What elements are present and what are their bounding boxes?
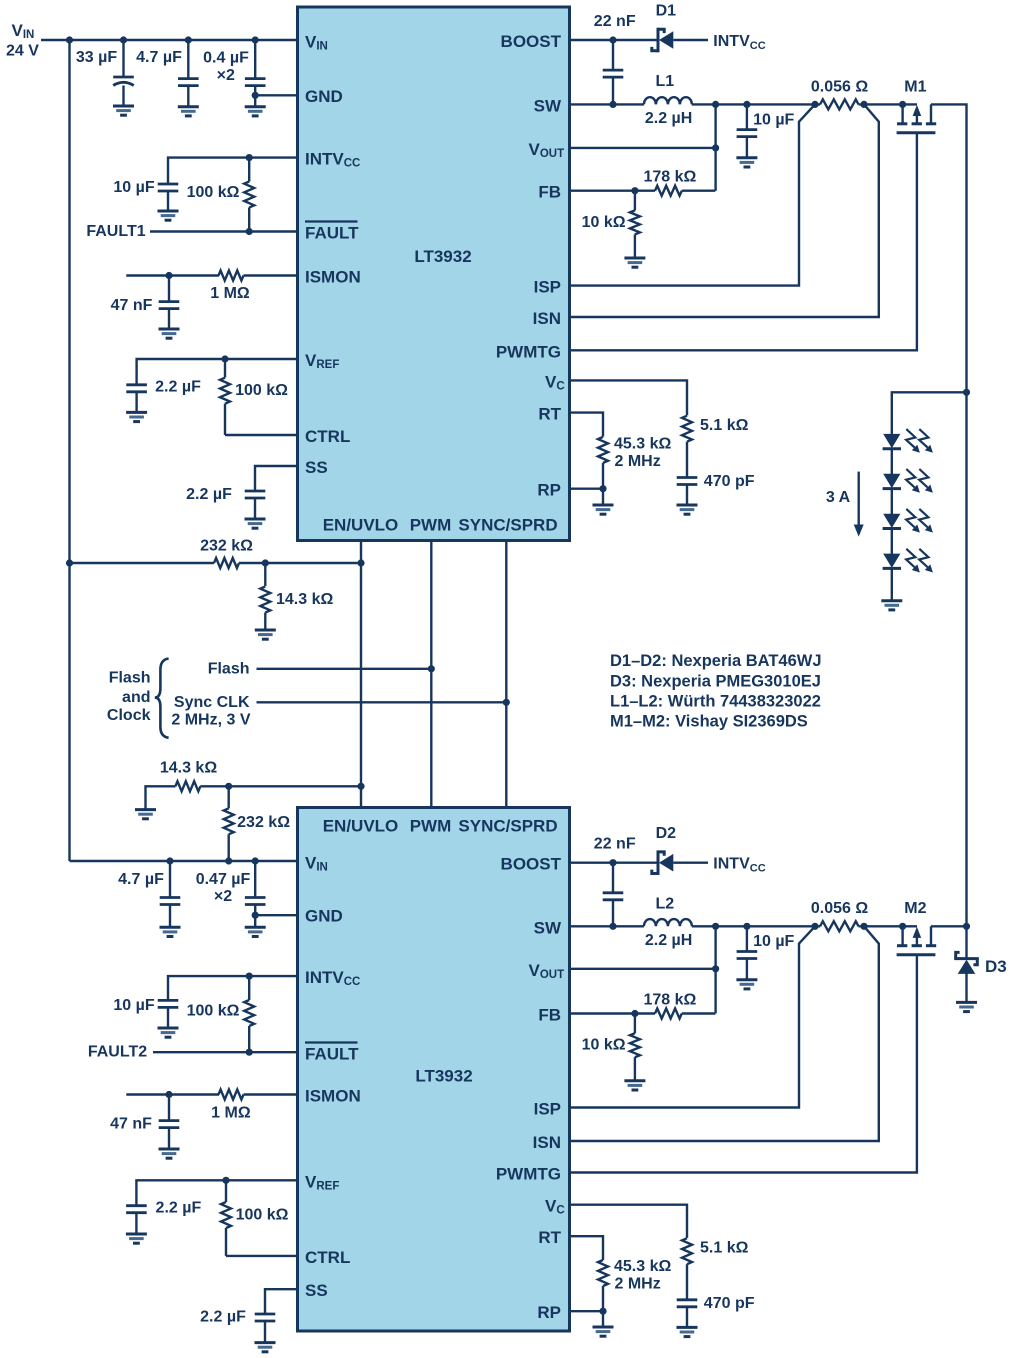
- wire sense to M2: [859, 925, 918, 927]
- wire SW U2: [570, 925, 644, 927]
- transistor M1 MOSFET: [897, 78, 937, 133]
- svg-text:0.056 Ω: 0.056 Ω: [811, 78, 868, 95]
- node junction SW 22nF: [609, 101, 616, 108]
- LED D-string 3: [883, 509, 933, 533]
- capacitor 2.2uF VREF: [126, 379, 201, 422]
- svg-text:RT: RT: [538, 1228, 561, 1247]
- svg-text:10 kΩ: 10 kΩ: [582, 1037, 626, 1054]
- svg-text:45.3 kΩ: 45.3 kΩ: [614, 1258, 671, 1275]
- wire ISMON U1: [126, 274, 219, 276]
- svg-text:14.3 kΩ: 14.3 kΩ: [160, 760, 217, 777]
- svg-text:L1–L2: Würth 74438323022: L1–L2: Würth 74438323022: [610, 693, 821, 711]
- svg-text:M1: M1: [904, 78, 926, 95]
- node junction ISMON2 cap: [165, 1091, 172, 1098]
- wire LED1-2: [891, 449, 893, 475]
- svg-text:GND: GND: [305, 907, 343, 926]
- resistor 14.3k EN/UVLO: [255, 563, 334, 639]
- node junction EN pin U1: [357, 559, 364, 566]
- svg-text:0.47 µF: 0.47 µF: [196, 871, 251, 888]
- svg-text:1 MΩ: 1 MΩ: [210, 285, 250, 302]
- capacitor 10uF output: [736, 104, 794, 167]
- node junction ISMON cap: [165, 272, 172, 279]
- wire RT U1: [570, 413, 604, 437]
- wire CTRL U1: [225, 434, 298, 436]
- wire PWMTG U1 to M1 gate: [570, 133, 917, 350]
- svg-text:PWMTG: PWMTG: [496, 342, 561, 361]
- resistor 100k INTVCC-FAULT: [187, 158, 255, 232]
- resistor 1M ISMON U2: [211, 1090, 297, 1122]
- capacitor 10uF INTVCC U2: [113, 997, 178, 1037]
- resistor 178k FB U2: [643, 991, 715, 1018]
- IC U1 LT3932 body: [298, 7, 570, 541]
- svg-text:45.3 kΩ: 45.3 kΩ: [614, 436, 671, 453]
- svg-text:5.1 kΩ: 5.1 kΩ: [700, 1240, 749, 1257]
- svg-text:EN/UVLO: EN/UVLO: [323, 817, 399, 836]
- wire SS U1: [255, 466, 298, 491]
- capacitor 2.2uF VREF U2: [126, 1200, 202, 1244]
- transistor M2 MOSFET: [897, 900, 937, 955]
- resistor 45.3k RT: [598, 436, 671, 489]
- svg-text:178 kΩ: 178 kΩ: [643, 169, 696, 186]
- U2 right pin labels: [496, 855, 565, 1322]
- svg-text:LT3932: LT3932: [415, 1067, 472, 1086]
- svg-text:D1–D2: Nexperia BAT46WJ: D1–D2: Nexperia BAT46WJ: [610, 652, 822, 670]
- resistor 100k INTVCC-FAULT U2: [187, 976, 255, 1052]
- resistor 45.3k RT U2: [598, 1258, 671, 1311]
- svg-text:10 µF: 10 µF: [113, 997, 154, 1014]
- node junction M2 drain D3: [963, 923, 970, 930]
- node junction FAULT1: [246, 228, 253, 235]
- svg-text:INTVCC: INTVCC: [713, 856, 765, 875]
- wire VOUT U2: [570, 968, 716, 970]
- svg-text:ISP: ISP: [534, 278, 561, 297]
- wire LED2-3: [891, 489, 893, 515]
- node junction GND cap: [252, 92, 259, 99]
- capacitor 2.2uF SS: [186, 486, 265, 528]
- svg-text:SW: SW: [534, 918, 562, 937]
- node junction EN2 pin: [357, 783, 364, 790]
- svg-text:ISN: ISN: [533, 309, 561, 328]
- svg-text:SYNC/SPRD: SYNC/SPRD: [458, 817, 557, 836]
- wire ISN U1: [570, 104, 879, 317]
- svg-text:BOOST: BOOST: [501, 32, 562, 51]
- LED D-string 4: [883, 549, 933, 573]
- wire LED branch: [892, 392, 967, 434]
- svg-text:RP: RP: [537, 1303, 561, 1322]
- svg-text:×2: ×2: [217, 67, 235, 84]
- wire GND pin U1: [255, 94, 297, 96]
- capacitor 47nF ISMON: [111, 276, 180, 339]
- node junction SW2 22nF: [609, 923, 616, 930]
- capacitor 22nF BOOST U2: [594, 836, 636, 927]
- node junction BOOST2 cap: [609, 859, 616, 866]
- wire Sync CLK to SYNC/SPRD: [257, 701, 507, 703]
- resistor 232k EN/UVLO: [200, 538, 253, 569]
- wire EN/UVLO divider row: [70, 562, 215, 564]
- svg-text:SW: SW: [534, 96, 562, 115]
- diode D2 schottky: [652, 825, 676, 875]
- wire Flash to PWM: [257, 668, 432, 670]
- svg-text:M2: M2: [904, 900, 926, 917]
- wire VIN rail top: [41, 39, 298, 42]
- node junction EN2 divider: [225, 783, 232, 790]
- svg-text:100 kΩ: 100 kΩ: [235, 382, 288, 399]
- U2 top pin labels: [323, 817, 558, 836]
- U2 left pin labels: [305, 854, 361, 1301]
- IC U2 LT3932 body: [298, 808, 570, 1332]
- node junction RP: [599, 485, 606, 492]
- node junction 10uF out: [743, 101, 750, 108]
- wire ISP U2: [570, 926, 816, 1107]
- node junction 10uF out U2: [743, 923, 750, 930]
- wire EN/UVLO bus vertical: [360, 541, 362, 808]
- node junction INTVCC: [246, 154, 253, 161]
- svg-text:LT3932: LT3932: [414, 247, 471, 266]
- svg-text:3 A: 3 A: [826, 489, 851, 506]
- wire ISN U2: [570, 926, 879, 1141]
- node junction GND2 cap: [252, 912, 259, 919]
- wire INTVCC U2: [168, 976, 298, 1000]
- svg-text:10 µF: 10 µF: [753, 933, 794, 950]
- svg-text:BOOST: BOOST: [501, 855, 562, 874]
- diode D1 schottky: [652, 3, 676, 53]
- svg-text:CTRL: CTRL: [305, 1248, 350, 1267]
- node junction VREF: [221, 355, 228, 362]
- svg-text:CTRL: CTRL: [305, 427, 350, 446]
- svg-text:FAULT: FAULT: [305, 224, 359, 243]
- svg-text:1 MΩ: 1 MΩ: [211, 1105, 251, 1122]
- svg-text:×2: ×2: [214, 888, 232, 905]
- wire CTRL U2: [226, 1255, 298, 1257]
- ground RP U2: [593, 1311, 614, 1336]
- svg-text:14.3 kΩ: 14.3 kΩ: [276, 591, 333, 608]
- wire VIN left vertical rail: [68, 40, 70, 861]
- wire ISMON U2: [126, 1093, 219, 1095]
- wire L1 to sense: [692, 103, 820, 105]
- svg-text:4.7 µF: 4.7 µF: [118, 871, 164, 888]
- svg-text:D1: D1: [656, 3, 677, 20]
- svg-text:2.2 µF: 2.2 µF: [186, 486, 232, 503]
- svg-text:INTVCC: INTVCC: [713, 33, 765, 52]
- svg-text:Flash: Flash: [109, 670, 151, 687]
- svg-text:5.1 kΩ: 5.1 kΩ: [700, 417, 749, 434]
- svg-text:100 kΩ: 100 kΩ: [187, 1003, 240, 1020]
- node Flash and Clock brace label: [107, 659, 169, 738]
- node notes text block: [610, 652, 822, 731]
- ground LED string: [881, 599, 902, 602]
- node junction EN divider: [262, 559, 269, 566]
- svg-text:100 kΩ: 100 kΩ: [236, 1207, 289, 1224]
- wire VIN rail U2: [70, 860, 298, 862]
- svg-text:and: and: [122, 689, 150, 706]
- node junction FB2: [631, 1010, 638, 1017]
- capacitor 2.2uF SS U2: [200, 1309, 275, 1352]
- capacitor 33uF input: [76, 36, 134, 115]
- node junction RP2: [599, 1308, 606, 1315]
- node junction left rail EN: [66, 559, 73, 566]
- resistor 10k FB-GND U2: [582, 1014, 646, 1091]
- wire VC U2: [570, 1205, 688, 1238]
- wire VREF U2: [136, 1180, 297, 1205]
- svg-text:33 µF: 33 µF: [76, 49, 117, 66]
- wire FB U2: [570, 1012, 656, 1014]
- svg-text:2 MHz: 2 MHz: [615, 453, 661, 470]
- node junction 232k rail2: [225, 857, 232, 864]
- svg-text:L2: L2: [655, 895, 674, 912]
- wire INTVCC U1: [168, 158, 298, 184]
- node junction VOUT: [712, 144, 719, 151]
- svg-text:ISP: ISP: [534, 1100, 561, 1119]
- svg-text:22 nF: 22 nF: [594, 836, 636, 853]
- svg-text:M1–M2: Vishay SI2369DS: M1–M2: Vishay SI2369DS: [610, 713, 808, 731]
- resistor 0.056 ohm sense U2: [811, 900, 868, 931]
- resistor 232k EN/UVLO U2: [224, 786, 291, 861]
- svg-text:22 nF: 22 nF: [594, 13, 636, 30]
- resistor 178k FB: [643, 169, 715, 196]
- svg-text:10 kΩ: 10 kΩ: [582, 214, 626, 231]
- svg-text:4.7 µF: 4.7 µF: [136, 49, 182, 66]
- wire ISP U1: [570, 104, 816, 285]
- svg-text:2 MHz: 2 MHz: [615, 1276, 661, 1293]
- capacitor 22nF BOOST: [594, 13, 636, 104]
- capacitor 47nF ISMON U2: [110, 1095, 179, 1159]
- svg-text:2.2 µF: 2.2 µF: [156, 1200, 202, 1217]
- svg-text:EN/UVLO: EN/UVLO: [323, 516, 399, 535]
- svg-text:FAULT2: FAULT2: [88, 1044, 147, 1061]
- svg-text:Clock: Clock: [107, 707, 151, 724]
- wire D2 to INTVCC: [673, 862, 708, 864]
- svg-text:L1: L1: [655, 73, 674, 90]
- svg-text:10 µF: 10 µF: [113, 179, 154, 196]
- wire GND pin U2: [255, 914, 297, 916]
- wire PWM bus vertical: [430, 541, 432, 808]
- U1 right pin labels: [496, 32, 565, 500]
- wire PWMTG U2 to M2 gate: [570, 955, 917, 1173]
- diode D3 schottky catch: [954, 926, 1007, 1001]
- resistor 14.3k EN/UVLO U2: [135, 760, 361, 819]
- wire FB U1: [570, 189, 656, 191]
- svg-text:PWM: PWM: [410, 516, 452, 535]
- capacitor 4.7uF U2 input: [118, 857, 180, 936]
- capacitor 470pF VC U2: [677, 1295, 755, 1337]
- svg-text:D3: D3: [985, 957, 1007, 976]
- node junction VREF2: [222, 1177, 229, 1184]
- svg-text:PWM: PWM: [410, 817, 452, 836]
- svg-text:470 pF: 470 pF: [704, 1295, 755, 1312]
- inductor L1 2.2uH: [644, 73, 692, 127]
- svg-text:470 pF: 470 pF: [704, 473, 755, 490]
- node junction L1 out: [712, 101, 719, 108]
- wire VC U1: [570, 380, 688, 415]
- U1 left pin labels: [305, 33, 361, 478]
- wire LED3-4: [891, 529, 893, 555]
- node junction VOUT2: [712, 965, 719, 972]
- wire BOOST U1: [570, 39, 658, 41]
- wire VREF U1: [137, 359, 298, 385]
- svg-text:2.2 µF: 2.2 µF: [155, 379, 201, 396]
- resistor 10k FB-GND: [582, 191, 646, 268]
- svg-text:FAULT1: FAULT1: [86, 223, 145, 240]
- capacitor 4.7uF input: [136, 36, 199, 116]
- svg-text:24 V: 24 V: [6, 43, 39, 60]
- wire VOUT U1: [570, 147, 716, 149]
- LED D-string 1: [883, 429, 933, 453]
- svg-text:VIN: VIN: [12, 21, 35, 41]
- svg-text:47 nF: 47 nF: [111, 297, 153, 314]
- node junction LED branch: [963, 389, 970, 396]
- svg-text:SS: SS: [305, 1281, 328, 1300]
- node junction FB: [631, 187, 638, 194]
- svg-text:0.4 µF: 0.4 µF: [203, 49, 249, 66]
- wire M1 drain to LED rail: [931, 104, 967, 926]
- capacitor 10uF INTVCC: [113, 179, 178, 220]
- svg-text:FB: FB: [538, 183, 561, 202]
- wire sense to M1: [859, 103, 918, 105]
- svg-text:SYNC/SPRD: SYNC/SPRD: [458, 516, 557, 535]
- svg-text:GND: GND: [305, 87, 343, 106]
- svg-text:2.2 µH: 2.2 µH: [645, 110, 692, 127]
- svg-text:100 kΩ: 100 kΩ: [187, 184, 240, 201]
- svg-text:232 kΩ: 232 kΩ: [237, 814, 290, 831]
- svg-text:PWMTG: PWMTG: [496, 1165, 561, 1184]
- node junction Flash-PWM: [428, 665, 435, 672]
- wire FAULT2: [153, 1051, 298, 1053]
- svg-text:0.056 Ω: 0.056 Ω: [811, 900, 868, 917]
- svg-text:RP: RP: [537, 481, 561, 500]
- wire RT U2: [570, 1236, 604, 1260]
- LED D-string 2: [883, 469, 933, 493]
- wire BOOST U2: [570, 862, 658, 864]
- node junction L2 out: [712, 923, 719, 930]
- svg-text:2.2 µF: 2.2 µF: [200, 1309, 246, 1326]
- wire RP U2: [570, 1310, 604, 1312]
- resistor 0.056 ohm sense: [811, 78, 868, 109]
- svg-text:2 MHz, 3 V: 2 MHz, 3 V: [171, 711, 250, 728]
- wire M2 drain junction: [931, 925, 967, 927]
- svg-text:D3: Nexperia PMEG3010EJ: D3: Nexperia PMEG3010EJ: [610, 672, 821, 690]
- ground RP U1: [593, 489, 614, 515]
- ground D3: [956, 1001, 977, 1004]
- wire SYNC/SPRD bus vertical: [505, 541, 507, 808]
- svg-text:ISMON: ISMON: [305, 268, 361, 287]
- svg-text:SS: SS: [305, 458, 328, 477]
- node VIN 24V label: [6, 21, 39, 60]
- wire LED4 to ground: [891, 568, 893, 600]
- svg-text:ISMON: ISMON: [305, 1087, 361, 1106]
- wire VOUT2-FB2 vertical: [714, 926, 716, 1013]
- resistor 5.1k VC U2: [682, 1238, 749, 1300]
- svg-text:2.2 µH: 2.2 µH: [645, 932, 692, 949]
- resistor 100k VREF-CTRL U2: [221, 1180, 289, 1256]
- inductor L2 2.2uH: [644, 895, 692, 949]
- svg-text:FAULT: FAULT: [305, 1045, 359, 1064]
- node Sync CLK label: [171, 694, 250, 728]
- wire SW U1: [570, 103, 644, 105]
- svg-text:232 kΩ: 232 kΩ: [200, 538, 253, 555]
- node junction INTVCC2: [246, 973, 253, 980]
- capacitor 470pF VC: [677, 473, 755, 514]
- svg-text:Flash: Flash: [208, 660, 250, 677]
- wire RP U1: [570, 488, 604, 490]
- svg-text:D2: D2: [656, 825, 677, 842]
- capacitor 0.47uF x2 U2: [196, 857, 266, 936]
- resistor 1M ISMON: [210, 271, 297, 303]
- wire SS U2: [265, 1289, 298, 1314]
- svg-text:FB: FB: [538, 1006, 561, 1025]
- wire L2 to sense: [692, 925, 820, 927]
- node junction FAULT2: [246, 1049, 253, 1056]
- svg-text:47 nF: 47 nF: [110, 1116, 152, 1133]
- svg-text:RT: RT: [538, 405, 561, 424]
- wire VOUT-FB vertical: [714, 104, 716, 190]
- wire FAULT1: [150, 230, 298, 232]
- resistor 5.1k VC: [682, 416, 749, 478]
- node junction Sync-SYNC/SPRD: [503, 699, 510, 706]
- svg-text:10 µF: 10 µF: [753, 111, 794, 128]
- capacitor 0.4uF x2: [203, 36, 266, 116]
- node junction BOOST cap: [609, 36, 616, 43]
- node junction VIN rail: [66, 36, 73, 43]
- U1 bottom pin labels: [323, 516, 558, 535]
- wire D1 to INTVCC: [673, 39, 708, 41]
- node 3A current arrow: [826, 472, 864, 537]
- svg-text:ISN: ISN: [533, 1133, 561, 1152]
- svg-text:Sync CLK: Sync CLK: [174, 694, 250, 711]
- resistor 100k VREF-CTRL: [220, 359, 288, 435]
- capacitor 10uF output U2: [736, 926, 794, 989]
- svg-text:178 kΩ: 178 kΩ: [643, 991, 696, 1008]
